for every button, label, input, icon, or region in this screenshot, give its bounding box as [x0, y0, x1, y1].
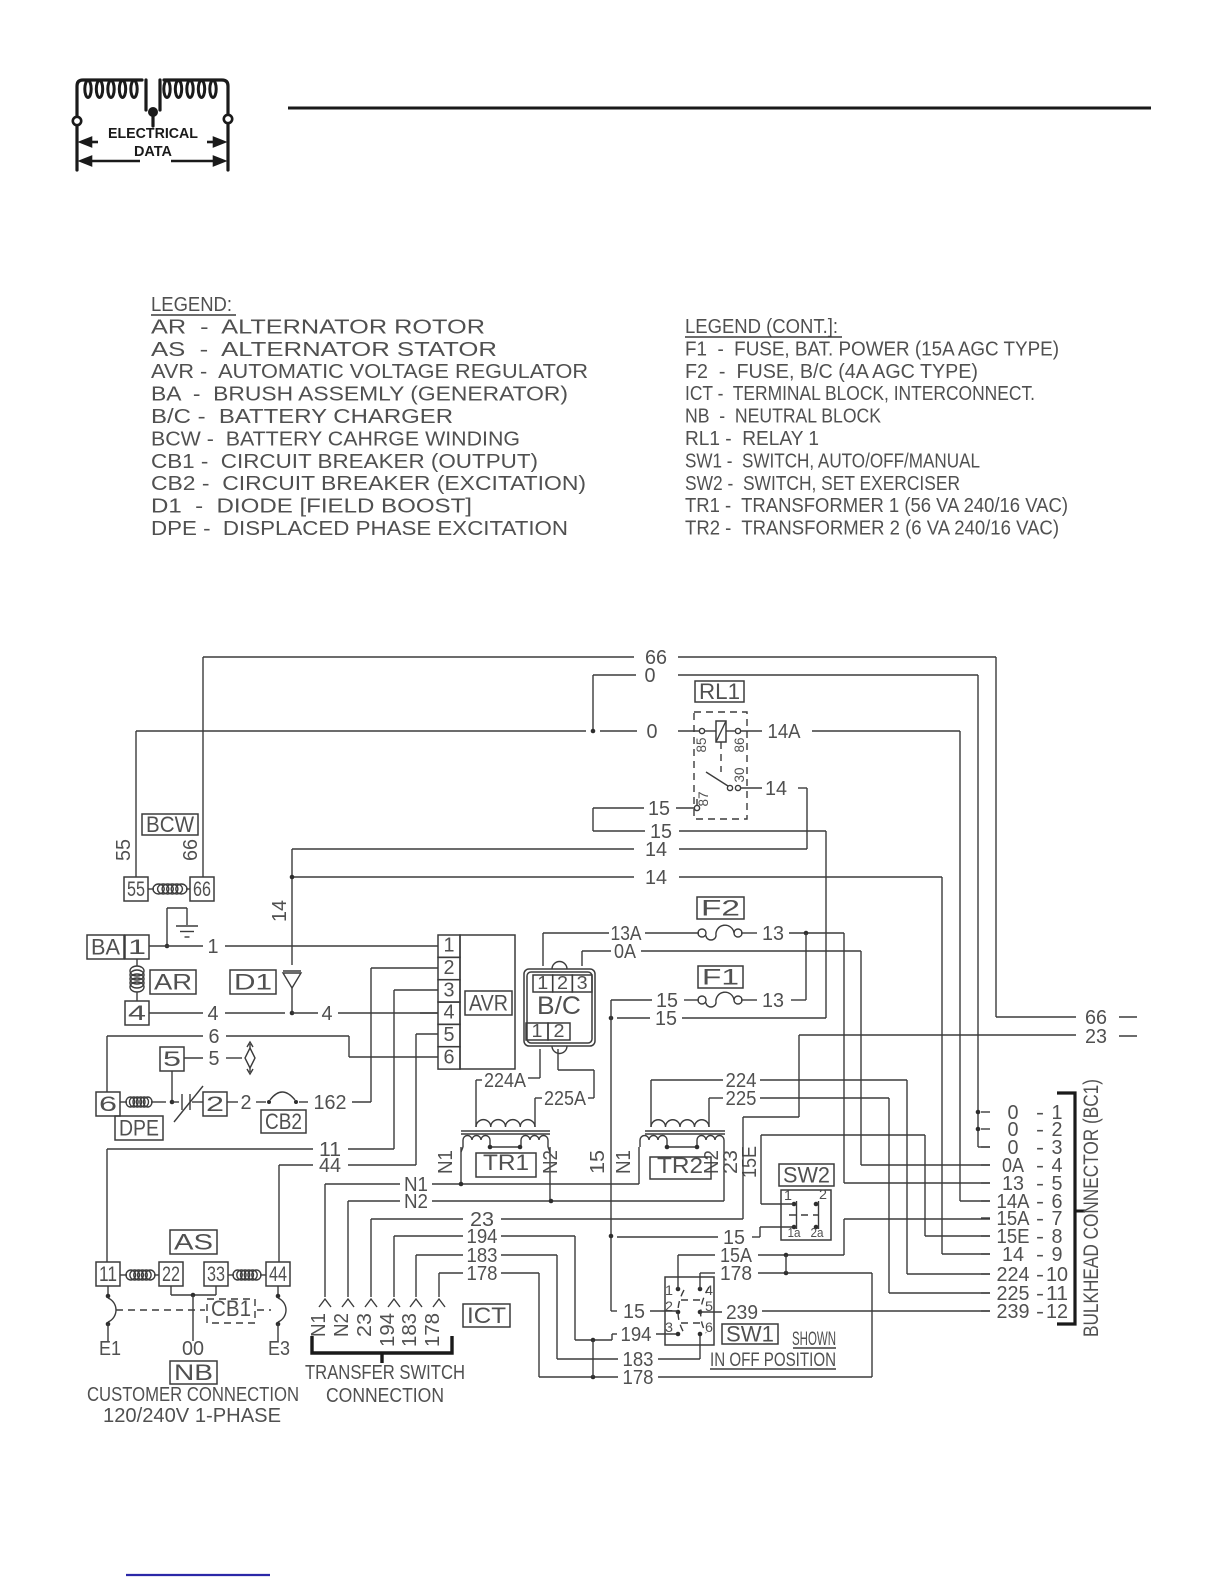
svg-text:1a: 1a: [788, 1225, 802, 1240]
svg-text:9: 9: [1052, 1244, 1063, 1266]
svg-text:2: 2: [444, 957, 455, 979]
wire 178 column vertical: [438, 1273, 440, 1297]
wire 194 horizontal: [394, 1235, 463, 1237]
wire 15 to SW1 pin2: [611, 1310, 617, 1312]
svg-text:CB2: CB2: [265, 1109, 302, 1134]
svg-text:1: 1: [532, 1021, 543, 1041]
rotor AR label box: [150, 970, 196, 994]
wire 224A left bracket: [476, 1079, 482, 1081]
svg-text:RL1 - RELAY 1: RL1 - RELAY 1: [685, 428, 819, 450]
BCW coil leads: [148, 888, 154, 890]
wire 15 vertical to F1 row: [825, 831, 827, 1018]
legend continued underline: [685, 336, 842, 338]
wire 15 into F1: [611, 999, 652, 1001]
diode D1 label box: [230, 970, 276, 994]
svg-text:F1: F1: [702, 964, 739, 989]
transformer TR1 secondary right: [521, 1136, 548, 1141]
wire 66 to edge: [996, 1016, 1076, 1018]
svg-text:N1: N1: [435, 1150, 457, 1174]
wire 162 vertical to AVR pin 2: [370, 968, 372, 1102]
svg-text:N2: N2: [540, 1150, 562, 1174]
AR terminal 4: [125, 1001, 149, 1025]
SW1 left blade dashed: [678, 1290, 684, 1333]
svg-text:194: 194: [377, 1313, 399, 1347]
svg-text:1: 1: [537, 973, 548, 993]
logo left vertical wire: [77, 80, 228, 170]
wire N1 horizontal: [325, 1183, 400, 1185]
wire 13 tick F1: [741, 999, 757, 1001]
svg-text:6: 6: [99, 1093, 117, 1116]
SW1 post 1: [676, 1287, 681, 1292]
relay RL1 label: [695, 681, 744, 702]
relay RL1 pin 87 circle: [694, 805, 699, 810]
wire 225 left bracket: [709, 1097, 723, 1099]
svg-text:2: 2: [206, 1093, 224, 1116]
wire 183 vertical jog: [556, 1255, 558, 1359]
wire 66 left vertical to BCW: [202, 657, 204, 877]
svg-text:2: 2: [557, 973, 568, 993]
svg-text:N1: N1: [613, 1150, 635, 1174]
svg-text:2: 2: [554, 1021, 565, 1041]
bulkhead pin 15A - 7: [981, 1217, 990, 1219]
breaker CB1 right contact: [277, 1286, 279, 1294]
wire 15A right: [758, 1254, 844, 1256]
svg-text:CB1: CB1: [211, 1296, 251, 1321]
svg-text:AVR - AUTOMATIC VOLTAGE REGUL: AVR - AUTOMATIC VOLTAGE REGULATOR: [151, 361, 588, 383]
svg-text:ICT - TERMINAL BLOCK, INTERCO: ICT - TERMINAL BLOCK, INTERCONNECT.: [685, 383, 1035, 405]
transfer switch bracket: [312, 1336, 452, 1353]
svg-text:RL1: RL1: [699, 679, 740, 704]
wire 1 horizontal: [149, 945, 203, 947]
svg-text:NB - NEUTRAL BLOCK: NB - NEUTRAL BLOCK: [685, 406, 882, 428]
node 1 junction: [165, 944, 170, 949]
wire N2 column vertical: [347, 1201, 349, 1297]
wire 15 second right: [679, 830, 826, 832]
switch SW2 body: [781, 1190, 831, 1240]
wire 14A vertical: [959, 731, 961, 1201]
wire 5 stub: [226, 1057, 242, 1059]
logo center tap: [146, 80, 160, 126]
svg-text:AS - ALTERNATOR STATOR: AS - ALTERNATOR STATOR: [151, 339, 497, 361]
transformer TR1 primary winding: [476, 1120, 535, 1127]
wire 225 vertical to bulkhead: [888, 1098, 890, 1293]
wire 0 right vertical to bulkhead: [977, 675, 979, 1147]
wire 14A feed to pin6: [960, 1200, 990, 1202]
wire 00: [192, 1295, 194, 1341]
svg-text:TR1: TR1: [483, 1150, 529, 1175]
transformer TR2 primary leads: [650, 1080, 652, 1127]
SW1 post 4: [698, 1287, 703, 1292]
TR2 center tap link: [667, 1146, 697, 1148]
wire 194 stub to SW1: [656, 1333, 678, 1335]
relay RL1 pin 30 circle: [735, 785, 740, 790]
svg-text:AR - ALTERNATOR ROTOR: AR - ALTERNATOR ROTOR: [151, 316, 485, 338]
svg-text:SW1 - SWITCH, AUTO/OFF/MANUAL: SW1 - SWITCH, AUTO/OFF/MANUAL: [685, 450, 980, 472]
transformer TR1 secondary left: [463, 1136, 490, 1141]
node 0 junction pin2: [976, 1127, 981, 1132]
relay RL1 switch common circle: [727, 785, 732, 790]
svg-text:44: 44: [269, 1263, 287, 1286]
relay RL1 coil pin 86: [735, 728, 740, 733]
svg-text:225A: 225A: [544, 1088, 587, 1110]
switch SW2 label box: [779, 1164, 834, 1186]
DPE coil leads: [120, 1101, 127, 1103]
svg-text:13: 13: [762, 990, 784, 1012]
wire N2 to TR2: [432, 1200, 724, 1202]
relay RL1 coil wires: [705, 730, 716, 732]
wire 15 main vertical: [610, 1000, 612, 1311]
top horizontal rule: [288, 107, 1151, 110]
svg-text:14: 14: [765, 778, 787, 800]
svg-text:4: 4: [705, 1282, 713, 1298]
wire N1 to TR1 TR2: [432, 1183, 639, 1185]
svg-text:44: 44: [319, 1155, 341, 1177]
jumper 15A-178: [785, 1255, 787, 1273]
wire 23 column vertical: [370, 1219, 372, 1297]
wire 15 branch to SW2: [617, 1236, 718, 1238]
wire 6 right: [226, 1035, 349, 1037]
svg-text:IN OFF POSITION: IN OFF POSITION: [710, 1350, 836, 1371]
BCW terminal 66: [190, 877, 214, 901]
svg-text:178: 178: [467, 1263, 498, 1285]
wire 0A vertical: [860, 951, 862, 1165]
logo right terminal circle: [224, 115, 232, 123]
AVR pin5 wire: [416, 1033, 438, 1035]
svg-text:F1 - FUSE, BAT. POWER (15A A: F1 - FUSE, BAT. POWER (15A AGC TYPE): [685, 338, 1059, 360]
svg-text:AVR: AVR: [469, 990, 508, 1015]
AS winding 11-22: [126, 1270, 155, 1280]
bulkhead pin 0 - 2: [981, 1128, 990, 1130]
svg-text:BCW - BATTERY CAHRGE WINDING: BCW - BATTERY CAHRGE WINDING: [151, 428, 520, 450]
node 0 junction pin1: [976, 1110, 981, 1115]
svg-text:3: 3: [577, 973, 588, 993]
wire 13A from B/C: [542, 933, 544, 966]
wire 13 from F2: [741, 932, 757, 934]
svg-text:E1: E1: [99, 1338, 121, 1360]
DPE terminal 6: [96, 1092, 120, 1116]
wire 15A jog to bulkhead: [843, 1219, 845, 1255]
switch SW1 label box: [722, 1324, 778, 1344]
AVR pin4 wire entry: [420, 1012, 438, 1014]
relay RL1 blade: [706, 772, 728, 786]
svg-text:239: 239: [726, 1302, 758, 1324]
wire 178-194 jumper: [592, 1340, 594, 1377]
charger B/C bottom terminals 1 2: [526, 1023, 548, 1040]
SW2 post 1a: [792, 1225, 797, 1230]
svg-text:66: 66: [180, 839, 202, 861]
TR1 center tap link: [490, 1146, 521, 1148]
svg-text:-: -: [1036, 1301, 1044, 1323]
wire 11 horizontal: [107, 1148, 313, 1150]
svg-text:178: 178: [623, 1367, 654, 1389]
fuse F1 symbol: [698, 996, 706, 1004]
ground symbol bars: [176, 925, 198, 927]
svg-text:B/C: B/C: [537, 992, 581, 1020]
breaker CB1 label box dashed: [207, 1299, 255, 1323]
svg-text:NB: NB: [174, 1360, 213, 1385]
wire 178 bottom right: [658, 1376, 872, 1378]
BCW winding coil: [153, 884, 187, 894]
svg-text:TRANSFER SWITCH: TRANSFER SWITCH: [305, 1362, 465, 1384]
wire 11 right: [348, 1148, 394, 1150]
wire 23 upper jog: [743, 1116, 799, 1118]
relay RL1 dashed body: [694, 712, 747, 819]
fuse F1 label box: [698, 966, 743, 988]
wire 13 feed to pin5: [844, 1182, 990, 1184]
bulkhead pin 0 - 1: [981, 1111, 990, 1113]
wire 13 vertical to bulkhead: [843, 933, 845, 1183]
wire 239 from SW1 pin5: [700, 1311, 722, 1313]
svg-text:CUSTOMER CONNECTION: CUSTOMER CONNECTION: [87, 1384, 299, 1406]
svg-text:120/240V 1-PHASE: 120/240V 1-PHASE: [103, 1405, 281, 1427]
rotor AR coil: [136, 959, 138, 966]
svg-text:15: 15: [648, 798, 670, 820]
svg-text:N2: N2: [404, 1191, 428, 1213]
svg-text:0: 0: [645, 665, 656, 687]
bulkhead pin 0A - 4: [981, 1164, 990, 1166]
svg-text:86: 86: [731, 737, 747, 752]
relay RL1 coil pin 85: [699, 728, 704, 733]
wire 15 from RL1 87: [676, 807, 694, 809]
logo left coil petals: [85, 81, 216, 98]
regulator AVR pin boxes: [438, 935, 460, 957]
svg-text:1: 1: [208, 936, 219, 958]
wire 13 to junction: [789, 932, 844, 934]
wire 23 to edge: [799, 1034, 1076, 1036]
TR2 N2 lead: [723, 1147, 725, 1201]
TR1 N2 lead: [549, 1147, 551, 1201]
SW1 post 2: [676, 1310, 681, 1315]
wire 2 stub: [256, 1101, 266, 1103]
wire 5 horizontal: [184, 1057, 203, 1059]
diode D1 symbol: [283, 970, 301, 972]
wire 14 feed to pin9: [942, 1253, 990, 1255]
wire 183 horizontal: [416, 1254, 463, 1256]
SW2 post 1: [792, 1202, 797, 1207]
svg-text:55: 55: [127, 878, 145, 901]
svg-text:30: 30: [731, 767, 747, 782]
DPE winding coil: [126, 1097, 152, 1107]
offpage arrow N1: [319, 1299, 331, 1307]
logo right vertical wire: [164, 80, 228, 170]
svg-text:ICT: ICT: [467, 1303, 506, 1328]
svg-text:4: 4: [444, 1002, 455, 1024]
svg-text:11: 11: [99, 1263, 117, 1286]
wire 224 right: [760, 1079, 907, 1081]
svg-text:TR2: TR2: [657, 1153, 703, 1178]
footer blue rule: [126, 1574, 270, 1576]
wire 15E vertical to bulkhead: [924, 1135, 926, 1236]
SW2 pole bars: [796, 1201, 798, 1229]
svg-text:22: 22: [162, 1263, 180, 1286]
TR1 N1 lead: [460, 1147, 462, 1184]
svg-text:178: 178: [720, 1263, 752, 1285]
wire 0A feed to pin4: [861, 1164, 990, 1166]
transformer TR2 label box: [650, 1157, 711, 1179]
svg-text:CB2 - CIRCUIT BREAKER (EXCITA: CB2 - CIRCUIT BREAKER (EXCITATION): [151, 473, 586, 495]
svg-text:225: 225: [726, 1088, 757, 1110]
svg-text:1: 1: [784, 1187, 792, 1203]
svg-text:6: 6: [444, 1046, 455, 1068]
transformer TR1 label box: [476, 1153, 536, 1177]
svg-text:239: 239: [997, 1301, 1030, 1323]
wire 178 vertical jog: [538, 1273, 540, 1377]
wire 178 bottom link: [539, 1376, 618, 1378]
wire 224A from B/C 1: [539, 1049, 541, 1078]
svg-text:AR: AR: [154, 969, 192, 994]
wire 15E to SW2 pin1: [761, 1203, 793, 1205]
logo dimension arrows: [81, 138, 224, 165]
wire 183 column vertical: [415, 1255, 417, 1297]
transformer TR2 primary winding: [651, 1120, 709, 1127]
wire 239 to bulkhead: [762, 1310, 990, 1312]
regulator AVR body: [460, 935, 515, 1069]
svg-text:DATA: DATA: [134, 144, 173, 160]
svg-text:ELECTRICAL: ELECTRICAL: [108, 126, 198, 142]
wire 6 left vertical to DPE: [106, 1036, 108, 1092]
wire 225 feed to pin11: [889, 1292, 990, 1294]
wire 15 lower horizontal: [617, 1017, 650, 1019]
TR2 N1 lead: [638, 1147, 640, 1184]
svg-text:0A: 0A: [614, 941, 637, 963]
svg-text:162: 162: [314, 1092, 347, 1114]
svg-text:6: 6: [209, 1026, 220, 1048]
svg-text:SW2: SW2: [783, 1162, 830, 1187]
wire 183 right jog: [501, 1254, 557, 1256]
ground from node 1: [166, 908, 168, 946]
node 4 junction diode: [290, 1011, 295, 1016]
wire 183 to SW1 pin6: [658, 1358, 700, 1360]
svg-text:5: 5: [209, 1048, 220, 1070]
svg-text:BA - BRUSH ASSEMLY (GENERATO: BA - BRUSH ASSEMLY (GENERATOR): [151, 384, 568, 406]
wire 225A left bracket: [535, 1097, 542, 1099]
net 66 edge dash: [1119, 1016, 1137, 1018]
wire 14 first horizontal: [292, 848, 634, 850]
svg-text:15: 15: [655, 1008, 677, 1030]
bulkhead pin 239 - 12: [981, 1310, 990, 1312]
bulkhead pin 14 - 9: [981, 1253, 990, 1255]
connector symbol on wire 5: [245, 1048, 255, 1068]
wire 15 first segment: [593, 807, 644, 809]
svg-text:0: 0: [647, 721, 658, 743]
svg-text:DPE: DPE: [119, 1115, 159, 1140]
svg-text:14: 14: [645, 867, 667, 889]
AVR pin5 vertical: [415, 1034, 417, 1165]
svg-text:23: 23: [1085, 1026, 1107, 1048]
breaker CB2 label box: [261, 1110, 306, 1133]
svg-text:23: 23: [354, 1313, 376, 1337]
node DPE junction: [170, 1100, 175, 1105]
wire 0 pin3 jog: [978, 1146, 990, 1148]
wire 15E to pin8: [925, 1235, 990, 1237]
transformer TR2 secondary right: [697, 1136, 724, 1141]
wire N2 horizontal: [348, 1200, 400, 1202]
svg-text:BULKHEAD CONNECTOR (BC1): BULKHEAD CONNECTOR (BC1): [1080, 1079, 1103, 1337]
wire 178 right vertical: [871, 1273, 873, 1377]
wire 194 vertical jog: [574, 1236, 576, 1340]
svg-text:66: 66: [193, 878, 211, 901]
svg-text:D1 - DIODE [FIELD BOOST]: D1 - DIODE [FIELD BOOST]: [151, 496, 472, 518]
svg-text:TR1 - TRANSFORMER 1 (56 VA 24: TR1 - TRANSFORMER 1 (56 VA 240/16 VAC): [685, 495, 1068, 517]
wire 0A to bulkhead: [641, 950, 861, 952]
svg-text:LEGEND (CONT.]:: LEGEND (CONT.]:: [685, 316, 838, 338]
breaker CB1 left contact: [107, 1286, 109, 1294]
wire 178 right jog: [501, 1272, 539, 1274]
SW1 post 5: [698, 1310, 703, 1315]
relay RL1 pin87 stub: [696, 799, 698, 805]
wire 0A from B/C: [581, 951, 583, 966]
SW1 linkage dashed: [681, 1299, 702, 1301]
bulkhead pin 225 - 11: [981, 1292, 990, 1294]
AS terminal 11: [96, 1262, 120, 1286]
wire 225A from B/C 2: [557, 1049, 559, 1070]
node 178 junction: [591, 1375, 596, 1380]
svg-text:1: 1: [128, 936, 146, 959]
svg-text:N2: N2: [331, 1313, 353, 1337]
svg-text:5: 5: [444, 1024, 455, 1046]
wire 14 from RL1 30: [741, 787, 762, 789]
DPE label box: [115, 1116, 163, 1140]
wire 6 horizontal: [107, 1035, 203, 1037]
svg-text:224A: 224A: [484, 1070, 527, 1092]
node 13 junction: [804, 931, 809, 936]
wire 194 column vertical: [393, 1236, 395, 1297]
legend title underline: [151, 314, 236, 316]
svg-text:2: 2: [819, 1186, 827, 1202]
node 0 junction: [591, 729, 596, 734]
relay RL1 coil: [716, 721, 726, 742]
svg-text:CONNECTION: CONNECTION: [326, 1385, 444, 1407]
svg-text:183: 183: [399, 1313, 421, 1347]
wire 194 bottom link: [575, 1339, 612, 1341]
charger B/C bottom tab: [552, 1046, 567, 1054]
wire 6 jog to AVR pin 6: [348, 1036, 350, 1057]
wire 14A from RL1 86: [741, 730, 762, 732]
AVR pin3 wire: [394, 989, 438, 991]
stator AS label box: [170, 1230, 217, 1254]
offpage arrow 194: [388, 1299, 400, 1307]
wire from box5 down to DPE node: [171, 1071, 173, 1102]
regulator AVR label box: [465, 991, 512, 1015]
wire 15 u-turn vertical: [592, 808, 594, 831]
SW1 right blade dashed: [701, 1287, 709, 1333]
wire 15 lower right: [682, 1017, 826, 1019]
svg-text:-: -: [1036, 1244, 1044, 1266]
node 14 junction: [290, 875, 295, 880]
svg-text:4: 4: [208, 1003, 219, 1025]
wire 44 horizontal: [279, 1164, 313, 1166]
svg-text:N1: N1: [308, 1313, 330, 1337]
breaker CB2 contacts: [267, 1100, 271, 1104]
bulkhead pin 224 - 10: [981, 1273, 990, 1275]
breaker CB1 dashed linkage: [116, 1309, 205, 1311]
bulkhead pin 14A - 6: [981, 1200, 990, 1202]
svg-text:15: 15: [587, 1150, 609, 1174]
svg-text:14: 14: [269, 900, 291, 922]
AVR pin2 wire: [371, 967, 438, 969]
wire 2 horizontal: [227, 1101, 238, 1103]
terminal block ICT label box: [463, 1304, 510, 1327]
svg-text:F2 - FUSE, B/C (4A AGC TYPE): F2 - FUSE, B/C (4A AGC TYPE): [685, 361, 978, 383]
svg-text:1: 1: [444, 935, 455, 957]
wire 23 to TR2 area: [501, 1218, 743, 1220]
winding BCW label: [142, 814, 198, 835]
wire 162: [299, 1101, 308, 1103]
svg-text:BA: BA: [91, 934, 120, 959]
wire 44 right: [348, 1164, 416, 1166]
bulkhead bracket: [1057, 1093, 1075, 1324]
svg-text:14: 14: [1002, 1244, 1024, 1266]
